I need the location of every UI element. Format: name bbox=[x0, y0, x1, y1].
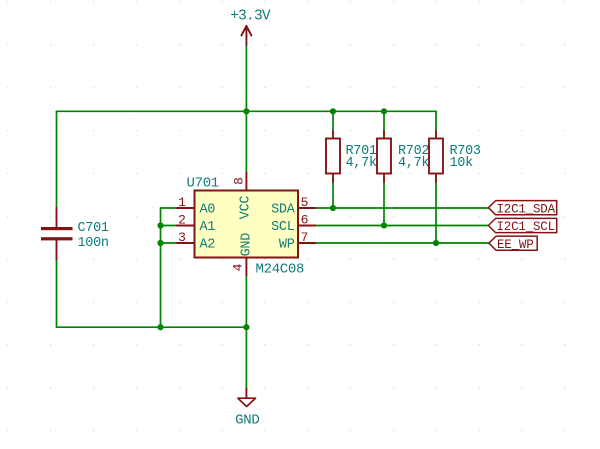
pin 4 bbox=[245, 258, 247, 276]
svg-text:3: 3 bbox=[178, 230, 186, 245]
ground pin stub bbox=[245, 389, 247, 398]
wire address column vertical bbox=[160, 208, 162, 327]
pin 7 bbox=[298, 242, 316, 244]
power symbol +3.3V arrow head bbox=[241, 26, 251, 36]
junction R702 top bbox=[381, 108, 387, 114]
svg-text:GND: GND bbox=[235, 412, 259, 428]
pin 8 bbox=[245, 173, 247, 191]
svg-text:WP: WP bbox=[279, 238, 295, 253]
wire top rail bbox=[57, 110, 437, 112]
wire pin8 VCC bbox=[245, 111, 247, 173]
svg-text:4: 4 bbox=[231, 263, 246, 271]
svg-text:4,7k: 4,7k bbox=[346, 156, 377, 171]
pin 1 bbox=[177, 207, 195, 209]
svg-text:10k: 10k bbox=[450, 156, 474, 171]
junction A2 bbox=[157, 240, 163, 246]
svg-text:6: 6 bbox=[301, 213, 309, 228]
junction SCL / R702 bbox=[381, 222, 387, 228]
svg-text:SCL: SCL bbox=[271, 220, 295, 235]
ground symbol triangle bbox=[238, 398, 256, 406]
global label I2C1_SDA bbox=[488, 201, 556, 217]
pin 6 bbox=[298, 225, 316, 227]
wire R702 bottom bbox=[383, 182, 385, 226]
wire bottom rail bbox=[57, 326, 247, 328]
svg-text:A0: A0 bbox=[200, 203, 216, 218]
svg-text:4,7k: 4,7k bbox=[398, 156, 429, 171]
wire pin3 A2 bbox=[161, 242, 178, 244]
resistor R702 pins bbox=[383, 131, 385, 139]
resistor R703 pins bbox=[435, 131, 437, 139]
resistor R703 body bbox=[429, 139, 443, 174]
junction WP / R703 bbox=[433, 240, 439, 246]
wire WP bbox=[316, 242, 489, 244]
svg-text:VCC: VCC bbox=[239, 196, 254, 220]
capacitor C701 bottom pin bbox=[56, 241, 58, 260]
svg-text:1: 1 bbox=[178, 195, 186, 210]
svg-text:100n: 100n bbox=[78, 236, 109, 251]
capacitor C701 top pin bbox=[56, 208, 58, 227]
svg-text:GND: GND bbox=[240, 233, 255, 257]
wire R701 bottom bbox=[332, 182, 334, 208]
wire pin4 GND bbox=[245, 275, 247, 327]
svg-text:I2C1_SCL: I2C1_SCL bbox=[497, 220, 555, 234]
global label I2C1_SCL bbox=[488, 218, 556, 234]
wire pin1 A0 bbox=[161, 207, 178, 209]
svg-text:U701: U701 bbox=[187, 176, 219, 192]
svg-text:A2: A2 bbox=[200, 238, 216, 253]
svg-text:M24C08: M24C08 bbox=[256, 262, 305, 278]
pin 5 bbox=[298, 207, 316, 209]
pin 3 bbox=[177, 242, 195, 244]
power +3.3V stem bbox=[245, 26, 247, 45]
wire left vertical lower bbox=[56, 260, 58, 328]
svg-text:I2C1_SDA: I2C1_SDA bbox=[497, 202, 556, 216]
global label EE_WP bbox=[489, 236, 537, 252]
wire SDA bbox=[316, 207, 489, 209]
wire to GND symbol bbox=[245, 327, 247, 389]
capacitor C701 bottom plate bbox=[41, 237, 73, 240]
svg-text:EE_WP: EE_WP bbox=[497, 238, 534, 252]
junction bottom rail / GND bbox=[243, 324, 249, 330]
wire R703 top bbox=[435, 111, 437, 131]
svg-text:A1: A1 bbox=[200, 220, 216, 235]
op IC U701 body bbox=[195, 191, 299, 258]
svg-text:5: 5 bbox=[301, 195, 309, 210]
wire left vertical upper bbox=[56, 111, 58, 208]
wire +3.3V column bbox=[245, 45, 247, 112]
pin 2 bbox=[177, 225, 195, 227]
junction bottom rail / A column bbox=[157, 324, 163, 330]
wire R702 top bbox=[383, 111, 385, 131]
svg-text:2: 2 bbox=[178, 213, 186, 228]
svg-text:SDA: SDA bbox=[271, 203, 296, 218]
svg-text:7: 7 bbox=[301, 230, 309, 245]
svg-text:C701: C701 bbox=[78, 221, 109, 236]
wire R703 bottom bbox=[435, 182, 437, 243]
wire pin2 A1 bbox=[161, 225, 178, 227]
junction R701 top bbox=[330, 108, 336, 114]
capacitor C701 top plate bbox=[41, 227, 73, 230]
junction at +3.3V rail bbox=[243, 108, 249, 114]
resistor R702 body bbox=[377, 139, 391, 174]
svg-text:+3.3V: +3.3V bbox=[230, 9, 271, 25]
junction SDA / R701 bbox=[330, 205, 336, 211]
wire SCL bbox=[316, 225, 489, 227]
resistor R701 body bbox=[326, 139, 340, 174]
wire R701 top bbox=[332, 111, 334, 131]
svg-text:8: 8 bbox=[232, 177, 247, 185]
junction A1 bbox=[157, 222, 163, 228]
resistor R701 pins bbox=[332, 131, 334, 139]
